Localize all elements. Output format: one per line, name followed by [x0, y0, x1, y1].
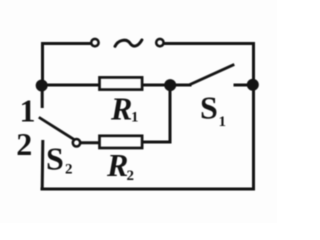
wire right vertical: [252, 44, 255, 190]
wire contact-2 stub / left vertical lower: [41, 142, 45, 190]
svg-text:1: 1: [131, 110, 139, 126]
svg-text:R: R: [106, 147, 128, 183]
resistor R2 body: [100, 136, 143, 148]
svg-text:R: R: [110, 90, 132, 126]
junction node right: [247, 79, 259, 91]
svg-text:S: S: [46, 140, 64, 176]
wire contact-1 stub: [41, 86, 44, 107]
terminal circle left: [91, 39, 98, 46]
wire left vertical upper: [41, 44, 44, 86]
wire R2 right to corner: [143, 141, 170, 144]
wire bottom horizontal: [42, 188, 254, 191]
wire top-left horizontal: [43, 42, 90, 45]
AC source tilde: [115, 40, 142, 46]
switch S2 blade: [40, 118, 73, 139]
wire S1 right stub: [235, 84, 253, 87]
wire S1 left stub: [170, 84, 190, 87]
switch S1 blade: [190, 65, 233, 85]
junction node B: [164, 79, 176, 91]
terminal circle right: [156, 39, 163, 46]
svg-text:1: 1: [20, 92, 36, 128]
wire node-A to R1: [42, 84, 99, 87]
svg-text:2: 2: [127, 168, 135, 184]
resistor R1 body: [100, 77, 143, 89]
svg-text:2: 2: [65, 162, 73, 178]
svg-text:2: 2: [16, 126, 32, 162]
switch S2 pivot circle: [73, 139, 80, 146]
wire S2 pivot to R2: [82, 141, 100, 144]
svg-text:1: 1: [219, 114, 227, 130]
wire top-right horizontal: [165, 42, 254, 45]
svg-text:S: S: [200, 89, 218, 125]
wire R1 to node-B: [143, 84, 170, 87]
wire node-B down to R2 level: [169, 85, 172, 142]
junction node A: [36, 80, 48, 92]
